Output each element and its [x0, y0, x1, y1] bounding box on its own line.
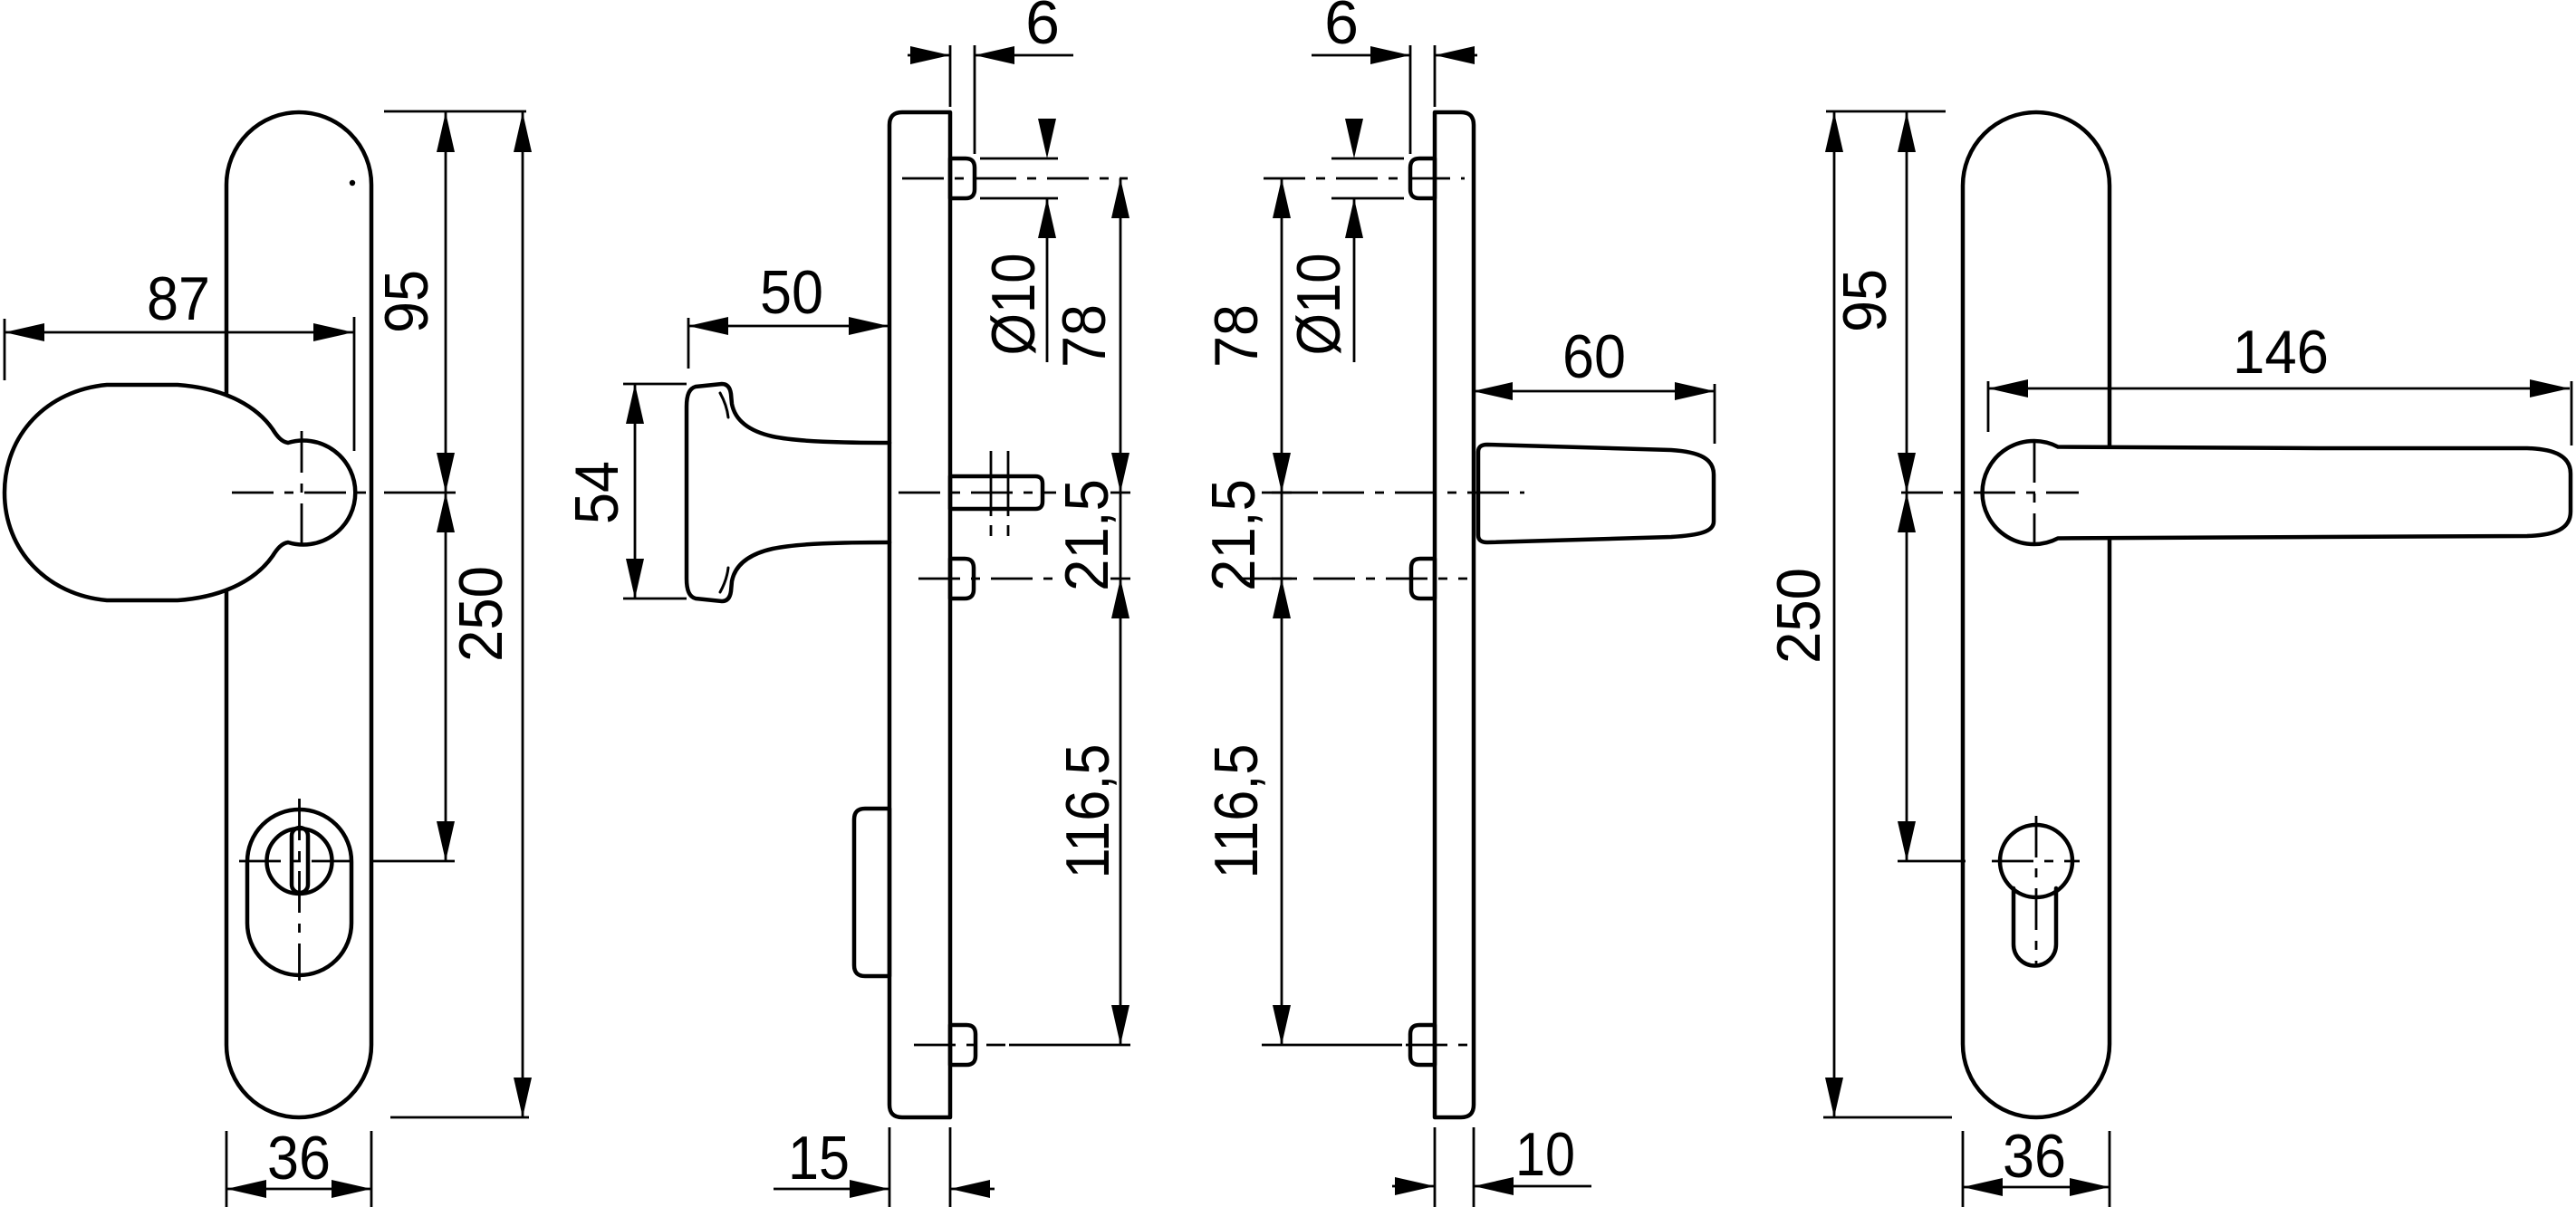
dim 21,5 line (view2) — [1120, 493, 1122, 579]
knob centerline horizontal (dash-dot) — [232, 492, 368, 494]
dim 6 extension lines (view3) — [1410, 45, 1435, 154]
dim 36 line with arrows (view1) — [226, 1180, 371, 1198]
lowboss-center extension tick (view2) — [1110, 578, 1130, 580]
svg-text:146: 146 — [2233, 318, 2329, 387]
dim 146 extension lines — [1988, 381, 2571, 445]
dim 21,5 tick marks (view3) — [1272, 493, 1292, 579]
plate-bottom extension line (view4) — [1823, 1116, 1952, 1119]
svg-text:95: 95 — [372, 270, 441, 333]
dim 10 label — [1515, 1120, 1575, 1189]
lower fixing boss (view3) — [1411, 559, 1435, 599]
spindle-center extension tick (view2) — [1110, 492, 1130, 494]
dim 6 label (view3) — [1324, 0, 1359, 57]
dim 54 label — [562, 461, 631, 524]
dim dia10 ticks (view3) — [1331, 158, 1404, 198]
spindle break line 2 — [1007, 451, 1010, 536]
svg-text:78: 78 — [1202, 304, 1271, 368]
cylinder circle — [267, 829, 332, 894]
top boss centerline (dash-dot, view2) — [902, 177, 1128, 180]
plate-top extension line (view1) — [384, 110, 526, 113]
lever handle front view — [1983, 441, 2571, 544]
dim 36 extension lines (view4) — [1963, 1131, 2110, 1207]
cylinder centerline horizontal (dash-dot) — [239, 860, 360, 863]
dim 36 line with arrows (view4) — [1963, 1178, 2110, 1196]
svg-text:50: 50 — [760, 258, 823, 327]
svg-text:Ø10: Ø10 — [979, 254, 1048, 356]
dim 10 extension lines — [1435, 1127, 1474, 1207]
top fixing boss (view3) — [1410, 158, 1435, 198]
plate-bottom extension line (view1) — [390, 1116, 529, 1119]
backplate side profile (15mm) — [889, 112, 950, 1117]
cylinder surround side profile (view2) — [854, 809, 889, 976]
dim 15 extension lines — [889, 1127, 950, 1207]
dim 21,5 label (view2) — [1053, 479, 1121, 591]
bottom boss centerline (view3) — [1262, 1044, 1467, 1047]
dim dia10 label (view3) — [1284, 254, 1353, 356]
backplate side profile (10mm) — [1435, 112, 1474, 1117]
dim 36 label (view4) — [2003, 1122, 2066, 1191]
dim 87 extension line right — [353, 317, 356, 451]
lever centerline (dash-dot, view3) — [1262, 492, 1524, 494]
dim 250 line with arrows (view1) — [514, 112, 532, 1117]
svg-text:250: 250 — [447, 566, 515, 662]
dim 36 extension lines (view1) — [226, 1131, 371, 1207]
cylinder centerline vertical (dash-dot) — [298, 799, 301, 981]
dim dia10 arrows (view3) — [1345, 119, 1363, 362]
dim 78 line with arrows (view2) — [1111, 178, 1129, 493]
dim 95 label (view1) — [372, 270, 441, 333]
dim 6 line with arrows (view2) — [908, 46, 1073, 64]
spindle centerline (dash-dot, view2) — [899, 492, 1056, 494]
knob (front view) outline — [5, 385, 355, 600]
dim 78 label (view2) — [1050, 304, 1119, 368]
dim dia10 arrows (view2) — [1038, 119, 1056, 362]
dim 146 label — [2233, 318, 2329, 387]
svg-text:10: 10 — [1515, 1120, 1575, 1189]
dim 116,5 line with arrows (view2) — [1111, 579, 1129, 1045]
dim 95 label (view4) — [1831, 269, 1899, 332]
svg-text:6: 6 — [1324, 0, 1359, 57]
dim 6 extension lines (view2) — [950, 45, 975, 154]
svg-text:60: 60 — [1562, 322, 1626, 391]
dim 95 line with arrows (view1) — [437, 112, 455, 493]
dim 54 extension lines — [623, 384, 687, 599]
dim 78 line with arrows (view3) — [1273, 178, 1291, 493]
dim 21,5 label (view3) — [1199, 479, 1268, 591]
spindle break line 1 — [990, 451, 993, 536]
top boss centerline (dash-dot, view3) — [1264, 177, 1465, 180]
svg-text:54: 54 — [562, 461, 631, 524]
cylinder surround oval (front view) — [247, 809, 351, 975]
svg-text:21,5: 21,5 — [1053, 479, 1121, 591]
botboss-center extension tick (view2) — [1009, 1044, 1130, 1047]
knob-center extension line (view1) — [384, 492, 456, 494]
dim 36 label (view1) — [267, 1124, 331, 1193]
spindle square 8mm (side view) — [950, 476, 1043, 509]
knob side profile — [687, 384, 889, 601]
dim 116,5 label (view3) — [1202, 744, 1271, 879]
dim 87 label — [147, 264, 210, 333]
svg-text:Ø10: Ø10 — [1284, 254, 1353, 356]
svg-text:87: 87 — [147, 264, 210, 333]
bottom fixing boss (view3) — [1410, 1025, 1435, 1065]
backplate (lever side, front view) 36x250 — [1963, 112, 2110, 1117]
cylinder keyway capsule — [292, 828, 308, 893]
dim 60 label — [1562, 322, 1626, 391]
dim 50 extension line — [687, 318, 690, 369]
PZ cylinder circle (view4) — [2000, 825, 2072, 897]
dim 6 line with arrows (view3) — [1312, 46, 1477, 64]
lever cap centerline vertical (dash-dot) — [2033, 441, 2036, 546]
dim 87 extension line left — [4, 319, 6, 380]
lower fixing boss (view2) — [950, 559, 974, 599]
dim dia10 label (view2) — [979, 254, 1048, 356]
top fixing boss (view2) — [950, 158, 975, 198]
dim 50 label — [760, 258, 823, 327]
dim 87 line with arrows — [5, 323, 353, 341]
lever centerline horizontal (dash-dot) — [1901, 492, 2079, 494]
PZ centerline horizontal (dash-dot) — [1992, 860, 2080, 863]
svg-text:116,5: 116,5 — [1202, 744, 1271, 879]
svg-text:78: 78 — [1050, 304, 1119, 368]
knob lip arc bottom — [720, 568, 728, 592]
lower boss centerline (dash-dot, view2) — [918, 578, 1056, 580]
dim 60 extension line right — [1714, 384, 1716, 444]
backplate (knob side, front view) 36x250 — [226, 112, 371, 1117]
PZ centerline vertical (dash-dot) — [2035, 816, 2038, 967]
dim 146 line with arrows — [1988, 379, 2570, 398]
dim 15 label — [788, 1124, 850, 1193]
chain dim line lever-to-cylinder (view4) — [1898, 493, 1916, 861]
dim dia10 ticks (view2) — [980, 158, 1058, 198]
dim 78 label (view3) — [1202, 304, 1271, 368]
dim 250 label (view1) — [447, 566, 515, 662]
svg-text:250: 250 — [1764, 568, 1833, 664]
dim 54 line with arrows — [626, 384, 644, 599]
svg-text:36: 36 — [267, 1124, 331, 1193]
dim 250 line with arrows (view4) — [1825, 112, 1843, 1117]
lever-center extension tick (view4) — [1898, 860, 1966, 863]
plate-top extension line (view4) — [1826, 110, 1946, 113]
dim 95 line with arrows (view4) — [1898, 112, 1916, 493]
cyl-center extension line (view1) — [373, 860, 455, 863]
knob lip arc top — [720, 393, 728, 417]
svg-text:6: 6 — [1025, 0, 1060, 57]
svg-text:116,5: 116,5 — [1053, 744, 1122, 879]
speck dot — [350, 180, 355, 186]
dim 50 line with arrows — [688, 317, 889, 335]
dim 116,5 line with arrows (view3) — [1273, 579, 1291, 1045]
bottom fixing boss (view2) — [950, 1025, 976, 1065]
knob centerline vertical (dash-dot) — [301, 431, 303, 556]
dim 6 label (view2) — [1025, 0, 1060, 57]
chain dim line knob-to-cylinder (view1) — [437, 493, 455, 861]
dim 60 line with arrows — [1473, 382, 1715, 400]
dim 250 label (view4) — [1764, 568, 1833, 664]
bottom boss centerline (dash-dot, view2) — [914, 1044, 1005, 1047]
lower boss centerline (dash-dot, view3) — [1241, 578, 1467, 580]
lever grip side profile — [1478, 445, 1714, 542]
svg-text:95: 95 — [1831, 269, 1899, 332]
dim 15 line with arrows — [774, 1180, 995, 1198]
svg-text:36: 36 — [2003, 1122, 2066, 1191]
svg-text:21,5: 21,5 — [1199, 479, 1268, 591]
svg-text:15: 15 — [788, 1124, 850, 1193]
dim 10 line with arrows — [1392, 1177, 1591, 1195]
dim 116,5 label (view2) — [1053, 744, 1122, 879]
PZ keyway stem (view4) — [2014, 888, 2056, 966]
dim 21,5 line (view3) — [1281, 493, 1283, 579]
